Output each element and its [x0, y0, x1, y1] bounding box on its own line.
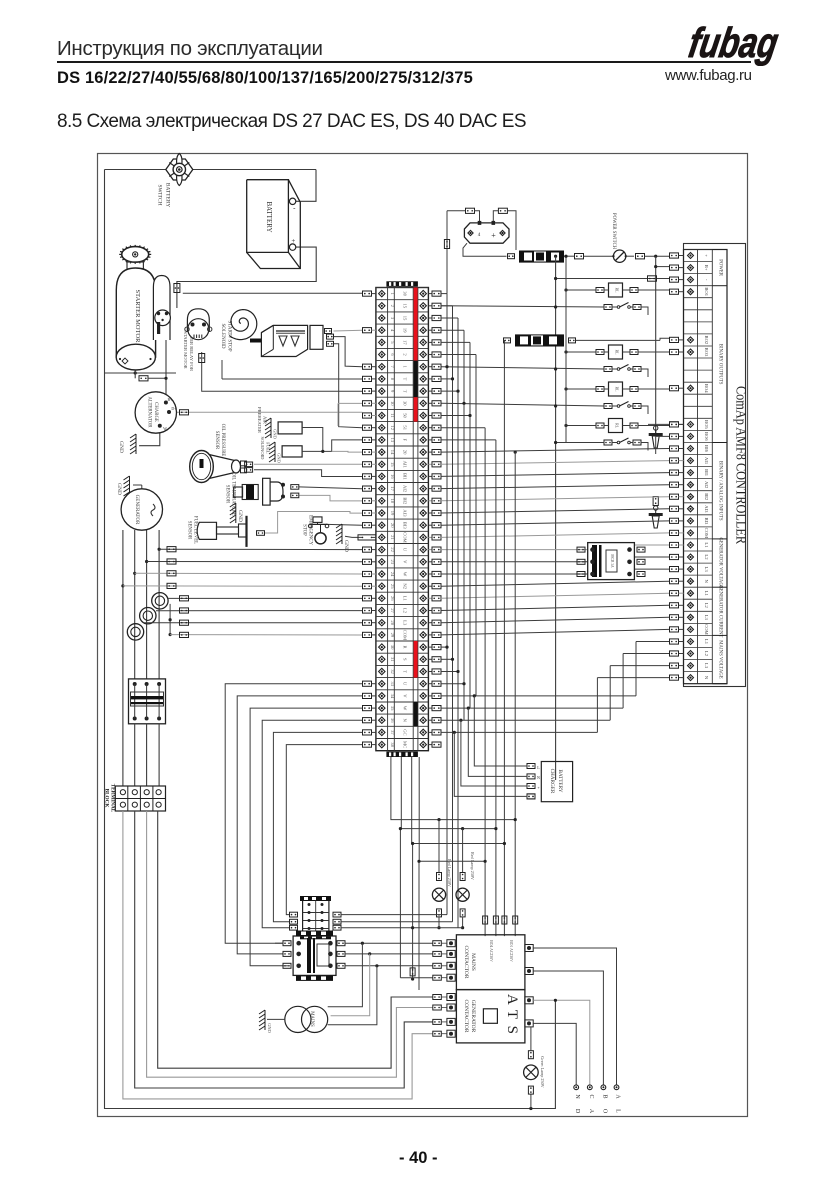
- svg-text:35: 35: [390, 706, 395, 711]
- svg-text:20: 20: [390, 523, 395, 528]
- svg-text:GND: GND: [118, 441, 124, 453]
- svg-text:BI6: BI6: [704, 445, 709, 453]
- svg-text:L1: L1: [704, 591, 709, 597]
- svg-text:L3: L3: [704, 567, 709, 573]
- svg-text:GND: GND: [273, 429, 278, 439]
- svg-text:V: V: [403, 694, 408, 698]
- svg-text:AI2: AI2: [403, 485, 408, 493]
- svg-text:31: 31: [390, 657, 395, 662]
- svg-text:L: L: [615, 1109, 621, 1113]
- svg-text:GND: GND: [277, 453, 282, 463]
- svg-text:CONTACTOR: CONTACTOR: [463, 945, 469, 978]
- svg-text:BI3: BI3: [704, 517, 709, 525]
- svg-text:U: U: [403, 682, 408, 686]
- svg-text:+: +: [491, 231, 496, 240]
- svg-text:CHARGER: CHARGER: [549, 769, 555, 794]
- svg-text:AI2: AI2: [704, 481, 709, 489]
- svg-text:17: 17: [390, 486, 395, 491]
- svg-text:COM: COM: [403, 532, 408, 542]
- svg-text:U: U: [403, 548, 408, 552]
- svg-text:BO4: BO4: [704, 384, 709, 393]
- svg-text:N: N: [537, 775, 540, 780]
- svg-text:W: W: [403, 706, 408, 711]
- svg-text:GND: GND: [116, 483, 122, 495]
- svg-text:-: -: [704, 279, 709, 281]
- svg-text:29: 29: [390, 633, 395, 638]
- svg-text:SENSOR: SENSOR: [225, 485, 230, 504]
- svg-text:GENERATOR: GENERATOR: [134, 495, 139, 525]
- svg-text:COM: COM: [403, 630, 408, 640]
- svg-text:L3: L3: [704, 615, 709, 621]
- svg-text:19: 19: [390, 511, 395, 516]
- svg-text:28: 28: [390, 620, 395, 625]
- svg-text:B+: B+: [168, 397, 174, 402]
- svg-text:BO5: BO5: [704, 420, 709, 429]
- svg-text:30: 30: [403, 291, 408, 296]
- svg-text:GC: GC: [403, 729, 408, 735]
- svg-text:L2: L2: [704, 603, 709, 609]
- svg-text:BO3: BO3: [704, 348, 709, 357]
- svg-text:D: D: [574, 1109, 580, 1114]
- svg-text:FUEL LEVEL: FUEL LEVEL: [193, 516, 198, 544]
- svg-text:BI2: BI2: [704, 493, 709, 501]
- svg-text:2: 2: [403, 353, 408, 356]
- svg-text:S: S: [403, 658, 408, 661]
- svg-text:POWER SWITCH: POWER SWITCH: [611, 213, 616, 250]
- svg-text:MAINS VOLTAGE: MAINS VOLTAGE: [718, 640, 723, 678]
- svg-text:STARTER MOTOR: STARTER MOTOR: [183, 331, 188, 369]
- svg-text:13: 13: [390, 438, 395, 443]
- svg-text:20: 20: [403, 450, 408, 455]
- svg-text:1: 1: [403, 366, 408, 369]
- svg-text:14: 14: [390, 450, 395, 455]
- svg-text:BINARY OUTPUTS: BINARY OUTPUTS: [718, 344, 723, 385]
- svg-text:SENSOR: SENSOR: [214, 431, 219, 450]
- svg-text:EMERGENCY: EMERGENCY: [307, 515, 312, 545]
- svg-text:34: 34: [390, 694, 395, 699]
- svg-text:12: 12: [390, 425, 395, 430]
- svg-text:F: F: [403, 439, 408, 442]
- svg-text:T: T: [403, 670, 408, 673]
- svg-text:50: 50: [403, 413, 408, 418]
- svg-text:L2: L2: [704, 554, 709, 560]
- svg-text:O: O: [601, 1109, 607, 1114]
- svg-text:19: 19: [403, 328, 408, 333]
- svg-text:10: 10: [390, 401, 395, 406]
- svg-text:W: W: [403, 572, 408, 577]
- svg-text:N: N: [704, 676, 709, 680]
- svg-text:POWER: POWER: [718, 259, 723, 277]
- svg-text:B+: B+: [704, 265, 709, 271]
- svg-text:36: 36: [390, 718, 395, 723]
- svg-text:N: N: [704, 580, 709, 584]
- svg-text:15: 15: [403, 304, 408, 309]
- svg-text:Red Lamp 230V: Red Lamp 230V: [470, 852, 475, 880]
- svg-text:BI2: BI2: [403, 497, 408, 505]
- svg-text:STOP: STOP: [301, 524, 306, 536]
- svg-text:38: 38: [390, 742, 395, 747]
- svg-text:V: V: [403, 560, 408, 564]
- svg-text:Red Lamp 230V: Red Lamp 230V: [447, 859, 452, 887]
- svg-text:R: R: [403, 646, 408, 650]
- svg-text:C: C: [588, 1094, 594, 1098]
- svg-text:Green Lamp 230V: Green Lamp 230V: [540, 1056, 545, 1087]
- svg-text:GENERATOR CURRENT: GENERATOR CURRENT: [718, 585, 723, 637]
- svg-text:37: 37: [390, 730, 395, 735]
- svg-text:17: 17: [403, 340, 408, 345]
- svg-text:PREHEATER: PREHEATER: [257, 407, 262, 434]
- svg-text:+: +: [704, 254, 709, 257]
- svg-text:A: A: [588, 1109, 594, 1114]
- svg-text:N: N: [403, 719, 408, 723]
- svg-text:33: 33: [390, 681, 395, 686]
- svg-text:N2: N2: [403, 583, 408, 589]
- svg-text:15: 15: [390, 462, 395, 467]
- svg-text:GND: GND: [343, 540, 349, 552]
- svg-text:24: 24: [390, 572, 395, 577]
- svg-text:+: +: [291, 237, 295, 245]
- svg-text:32: 32: [390, 669, 395, 674]
- svg-text:27: 27: [390, 608, 395, 613]
- svg-text:OIL PRESSURE: OIL PRESSURE: [220, 424, 225, 457]
- svg-text:16: 16: [390, 474, 395, 479]
- svg-text:L3: L3: [704, 663, 709, 669]
- svg-text:D+: D+: [171, 406, 177, 411]
- svg-text:+: +: [537, 785, 540, 790]
- svg-text:RL: RL: [615, 287, 620, 293]
- svg-text:SWITCH: SWITCH: [157, 184, 163, 205]
- svg-text:GENERATOR VOLTAGE: GENERATOR VOLTAGE: [718, 537, 723, 588]
- svg-text:L: L: [537, 765, 540, 770]
- svg-text:BO4 AC230V: BO4 AC230V: [489, 940, 493, 962]
- svg-text:11: 11: [390, 413, 395, 418]
- svg-text:L1: L1: [403, 596, 408, 602]
- svg-text:30: 30: [403, 401, 408, 406]
- svg-text:RL: RL: [615, 423, 620, 429]
- svg-text:T: T: [403, 377, 408, 380]
- svg-text:MC: MC: [403, 741, 408, 748]
- svg-text:BO1 AC230V: BO1 AC230V: [509, 940, 513, 962]
- svg-text:GND: GND: [267, 1023, 272, 1033]
- svg-text:BI3: BI3: [403, 522, 408, 530]
- svg-text:25: 25: [390, 584, 395, 589]
- svg-text:AI1: AI1: [704, 457, 709, 465]
- svg-text:ComAp AMF8 CONTROLLER: ComAp AMF8 CONTROLLER: [733, 386, 749, 544]
- svg-text:COM: COM: [704, 624, 709, 634]
- svg-text:30: 30: [390, 645, 395, 650]
- svg-text:BINARY / ANALOG INPUTS: BINARY / ANALOG INPUTS: [718, 461, 723, 521]
- svg-text:MAINS: MAINS: [470, 953, 476, 971]
- svg-text:A: A: [615, 1094, 621, 1099]
- svg-text:AIR: AIR: [263, 416, 268, 425]
- svg-text:COM: COM: [704, 528, 709, 538]
- svg-text:-: -: [293, 204, 296, 212]
- svg-text:ATS: ATS: [504, 994, 520, 1034]
- svg-text:AI1: AI1: [403, 461, 408, 469]
- svg-text:AI3: AI3: [704, 505, 709, 513]
- svg-text:MAINS: MAINS: [309, 1011, 314, 1027]
- svg-text:GND: GND: [237, 510, 243, 522]
- svg-text:21: 21: [390, 535, 395, 540]
- svg-text:26: 26: [390, 596, 395, 601]
- svg-text:L3: L3: [403, 620, 408, 626]
- svg-text:L2: L2: [704, 651, 709, 657]
- svg-text:51: 51: [403, 425, 408, 430]
- svg-text:MCB 3A: MCB 3A: [610, 554, 614, 568]
- svg-text:RL: RL: [615, 349, 620, 355]
- svg-text:N: N: [574, 1094, 580, 1099]
- svg-text:18: 18: [390, 499, 395, 504]
- svg-text:B: B: [601, 1094, 607, 1098]
- svg-text:RL: RL: [615, 386, 620, 392]
- svg-text:W: W: [163, 426, 167, 431]
- svg-text:L1: L1: [704, 542, 709, 548]
- svg-text:FUEL: FUEL: [266, 442, 271, 454]
- svg-text:SOLENOID: SOLENOID: [260, 437, 265, 461]
- svg-text:CHARGE: CHARGE: [153, 402, 158, 422]
- svg-text:SOLENOID: SOLENOID: [220, 324, 225, 349]
- svg-text:BO6: BO6: [704, 432, 709, 441]
- svg-text:BI1: BI1: [403, 473, 408, 481]
- svg-text:15: 15: [403, 316, 408, 321]
- svg-text:23: 23: [390, 560, 395, 565]
- svg-text:SENSOR: SENSOR: [187, 521, 192, 540]
- svg-text:L1: L1: [704, 639, 709, 645]
- svg-text:BATTERY: BATTERY: [165, 183, 171, 207]
- svg-text:BO2: BO2: [704, 336, 709, 345]
- svg-text:CONTACTOR: CONTACTOR: [463, 999, 469, 1032]
- svg-text:T: T: [403, 390, 408, 393]
- svg-text:AI3: AI3: [403, 509, 408, 517]
- svg-text:BO1: BO1: [704, 287, 709, 296]
- svg-text:BATTERY: BATTERY: [557, 769, 563, 792]
- svg-text:22: 22: [390, 547, 395, 552]
- svg-text:BATTERY: BATTERY: [265, 201, 273, 232]
- svg-text:STARTER MOTOR: STARTER MOTOR: [134, 290, 141, 344]
- svg-text:GENERATOR: GENERATOR: [470, 1000, 476, 1033]
- svg-text:L2: L2: [403, 608, 408, 614]
- svg-text:BI1: BI1: [704, 469, 709, 477]
- svg-text:ALTERNATOR: ALTERNATOR: [147, 397, 152, 429]
